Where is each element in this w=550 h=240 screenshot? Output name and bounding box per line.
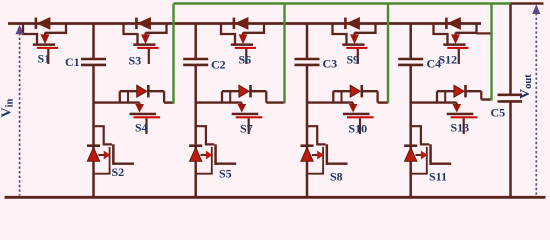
svg-text:S1: S1 <box>38 52 51 66</box>
svg-text:S7: S7 <box>240 122 253 136</box>
svg-text:C1: C1 <box>65 55 80 69</box>
svg-text:S12: S12 <box>439 53 458 67</box>
svg-text:S9: S9 <box>347 53 360 67</box>
svg-text:C4: C4 <box>427 57 442 71</box>
svg-text:C3: C3 <box>323 57 338 71</box>
svg-text:S11: S11 <box>429 170 447 184</box>
svg-text:C5: C5 <box>491 106 506 120</box>
svg-text:S3: S3 <box>129 54 142 68</box>
svg-text:S10: S10 <box>349 122 368 136</box>
svg-text:S13: S13 <box>451 121 470 135</box>
svg-text:S8: S8 <box>330 170 343 184</box>
svg-text:S5: S5 <box>219 167 232 181</box>
svg-text:C2: C2 <box>211 58 226 72</box>
svg-text:S6: S6 <box>239 53 252 67</box>
svg-text:S4: S4 <box>135 121 148 135</box>
svg-text:S2: S2 <box>112 165 125 179</box>
